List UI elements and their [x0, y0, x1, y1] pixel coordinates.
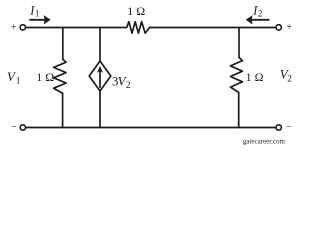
svg-text:1 Ω: 1 Ω	[127, 4, 145, 18]
svg-text:1: 1	[35, 9, 40, 19]
svg-text:+: +	[11, 23, 17, 34]
svg-text:gatecareer.com: gatecareer.com	[243, 137, 286, 145]
svg-text:2: 2	[126, 81, 131, 91]
svg-text:−: −	[11, 122, 17, 133]
svg-text:+: +	[286, 22, 292, 33]
svg-text:2: 2	[287, 75, 292, 85]
svg-text:1: 1	[16, 77, 21, 87]
svg-text:−: −	[286, 122, 292, 133]
svg-text:1 Ω: 1 Ω	[246, 70, 264, 84]
svg-text:2: 2	[258, 9, 263, 19]
svg-text:1 Ω: 1 Ω	[36, 70, 54, 84]
